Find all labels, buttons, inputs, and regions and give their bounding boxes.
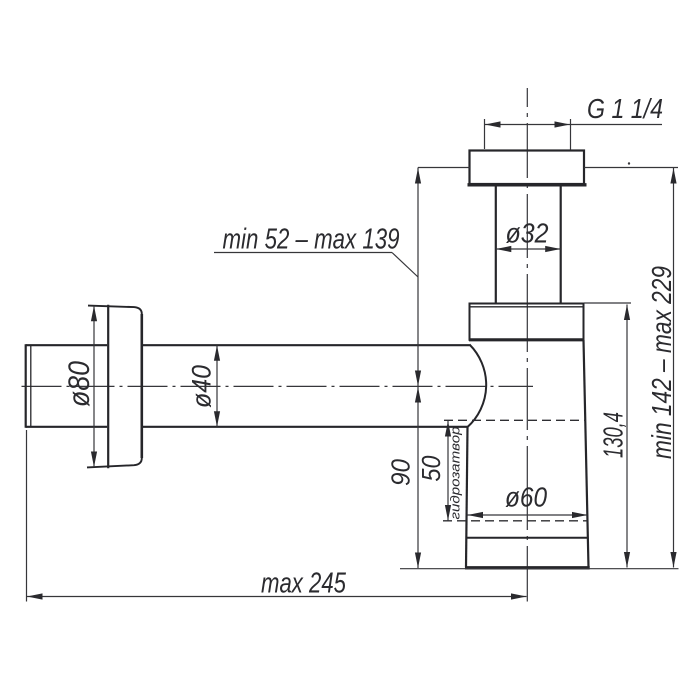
svg-text:min 142 – max 229: min 142 – max 229 xyxy=(646,266,677,459)
wall flange o80 xyxy=(87,305,142,469)
svg-text:ø60: ø60 xyxy=(505,482,547,513)
dimension G 1 1/4 xyxy=(485,93,664,150)
hidden tube bottom line xyxy=(443,520,587,522)
svg-text:min 52 – max 139: min 52 – max 139 xyxy=(223,224,400,256)
dimension 50 xyxy=(416,421,451,521)
dimension min 52 - max 139 xyxy=(214,168,470,387)
svg-text:max 245: max 245 xyxy=(261,568,347,600)
vertical centerline xyxy=(526,88,528,602)
svg-text:90: 90 xyxy=(386,458,416,486)
bottom extension line xyxy=(400,568,679,570)
bottle bottom cap xyxy=(465,538,590,568)
horizontal centerline xyxy=(22,385,534,387)
svg-text:50: 50 xyxy=(416,455,446,481)
hidden water level line xyxy=(444,419,586,421)
bottle top flange xyxy=(469,304,585,340)
svg-text:ø32: ø32 xyxy=(506,218,549,249)
dimension 130,4 xyxy=(584,303,631,568)
svg-text:ø40: ø40 xyxy=(187,365,217,408)
svg-text:130,4: 130,4 xyxy=(598,412,629,458)
bottle body xyxy=(466,340,589,568)
dimension min 142 - max 229 xyxy=(584,168,678,568)
svg-text:ø80: ø80 xyxy=(63,361,96,407)
dimension o80 xyxy=(63,306,97,467)
coupling nut G 1 1/4 xyxy=(468,151,587,185)
dimension max 245 xyxy=(27,430,527,602)
stray dot xyxy=(628,162,630,164)
svg-text:гидрозатвор: гидрозатвор xyxy=(447,427,462,520)
dimension o32 xyxy=(496,218,561,253)
inlet pipe o32 xyxy=(496,186,561,304)
outlet pipe o40 xyxy=(26,344,470,428)
dimension o40 xyxy=(187,345,221,427)
dimension 90 xyxy=(386,386,422,568)
pipe-bottle intersection curve xyxy=(468,345,487,428)
dimension o60 xyxy=(468,482,588,519)
svg-text:G 1 1/4: G 1 1/4 xyxy=(587,93,663,124)
